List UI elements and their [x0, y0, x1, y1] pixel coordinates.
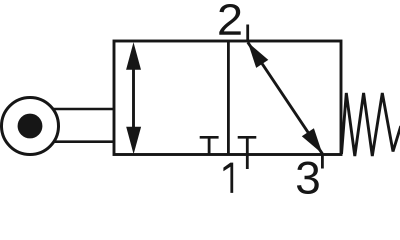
roller lever stem (upper line) — [45, 108, 114, 111]
flow path arrow 2-3 (right position, double-headed diagonal) — [248, 42, 323, 154]
roller wheel — [2, 98, 59, 155]
return spring — [342, 93, 400, 156]
valve body (2-position frame) — [114, 41, 341, 155]
label port 3 — [297, 161, 319, 194]
roller pin (filled hub) — [18, 114, 43, 139]
port 3 stub — [321, 155, 324, 169]
flow passage arrow (left position, double-headed vertical) — [126, 42, 141, 154]
label port 2 — [219, 4, 240, 35]
port 2 stub — [246, 25, 249, 43]
roller lever stem (lower line) — [45, 140, 114, 143]
blocked port symbol (left position T) — [200, 137, 219, 154]
label port 1 — [223, 163, 233, 193]
port 1 stub — [246, 155, 249, 170]
blocked port symbol (right position T on port 1) — [238, 137, 257, 154]
position divider — [227, 41, 230, 155]
